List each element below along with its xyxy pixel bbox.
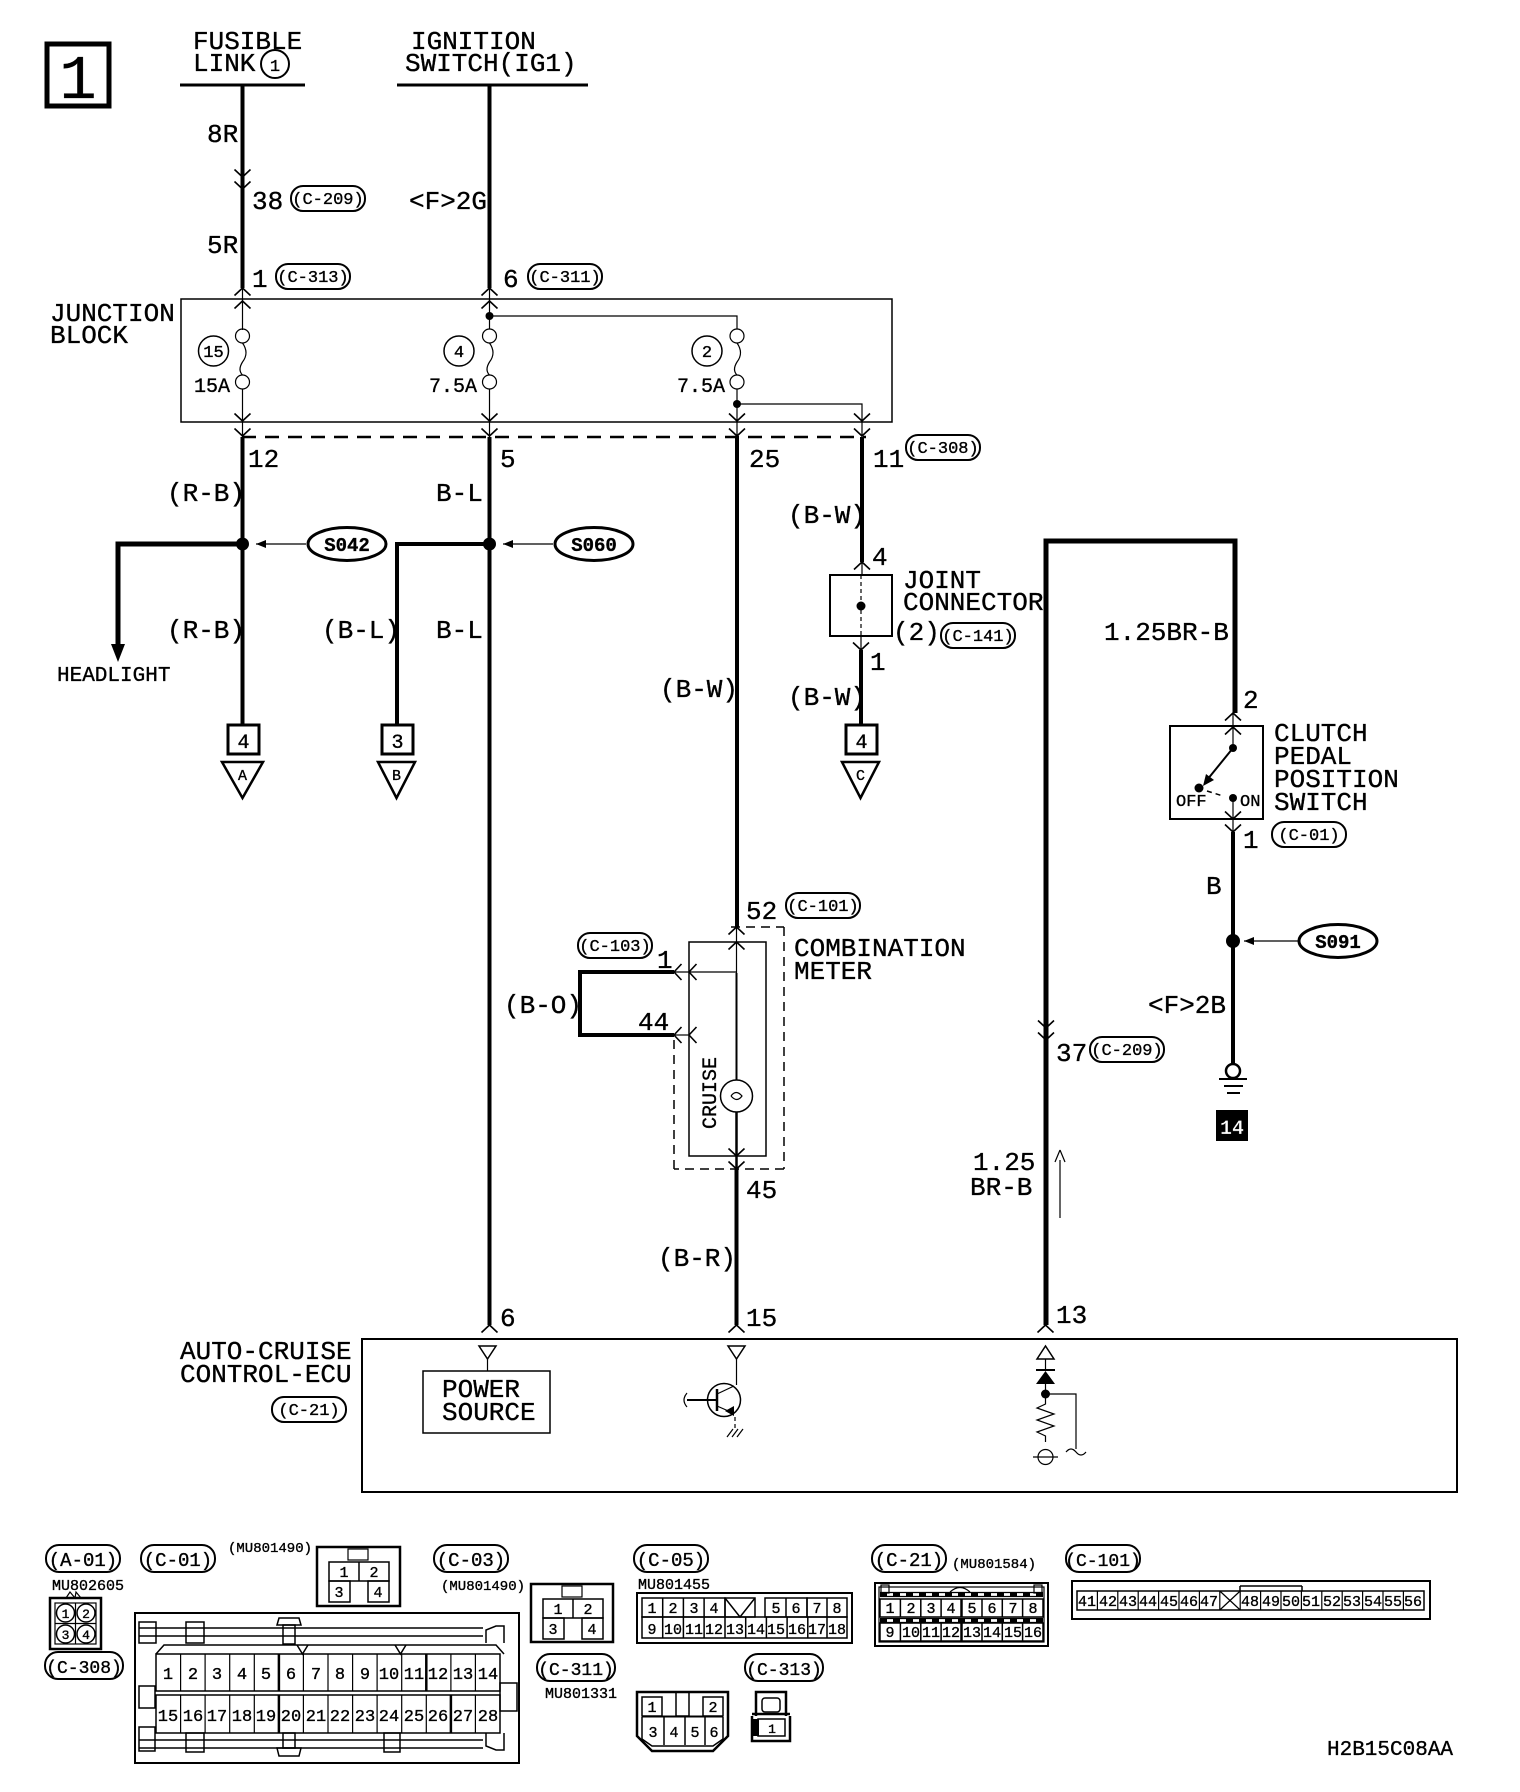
svg-text:11: 11 xyxy=(685,1622,703,1639)
svg-text:52: 52 xyxy=(746,897,777,927)
svg-text:16: 16 xyxy=(788,1622,806,1639)
svg-text:(B-W): (B-W) xyxy=(660,675,738,705)
svg-text:MU802605: MU802605 xyxy=(52,1578,124,1595)
svg-text:4: 4 xyxy=(709,1601,718,1618)
svg-text:41: 41 xyxy=(1078,1594,1096,1611)
svg-text:13: 13 xyxy=(1056,1301,1087,1331)
svg-text:4: 4 xyxy=(373,1585,382,1602)
svg-text:(C-103): (C-103) xyxy=(579,938,650,957)
svg-text:17: 17 xyxy=(207,1708,227,1727)
svg-text:19: 19 xyxy=(256,1708,276,1727)
svg-text:8: 8 xyxy=(1028,1601,1037,1618)
svg-text:6: 6 xyxy=(709,1725,718,1742)
svg-text:25: 25 xyxy=(404,1708,424,1727)
svg-text:4: 4 xyxy=(669,1725,678,1742)
svg-text:2: 2 xyxy=(906,1601,915,1618)
svg-text:3: 3 xyxy=(926,1601,935,1618)
svg-text:9: 9 xyxy=(360,1666,370,1685)
svg-text:5: 5 xyxy=(500,445,516,475)
svg-text:(C-311): (C-311) xyxy=(538,1661,614,1681)
svg-text:5: 5 xyxy=(967,1601,976,1618)
svg-text:4: 4 xyxy=(855,732,867,755)
svg-text:2: 2 xyxy=(668,1601,677,1618)
svg-text:56: 56 xyxy=(1404,1594,1422,1611)
svg-text:6: 6 xyxy=(503,265,519,295)
svg-text:7: 7 xyxy=(311,1666,321,1685)
svg-text:48: 48 xyxy=(1241,1594,1259,1611)
svg-text:11: 11 xyxy=(922,1625,940,1642)
svg-text:4: 4 xyxy=(946,1601,955,1618)
svg-text:(B-W): (B-W) xyxy=(788,501,866,531)
svg-text:11: 11 xyxy=(404,1666,424,1685)
svg-text:<F>2G: <F>2G xyxy=(409,187,487,217)
svg-text:C: C xyxy=(856,768,865,785)
svg-text:14: 14 xyxy=(478,1666,498,1685)
svg-text:14: 14 xyxy=(983,1625,1001,1642)
svg-text:1: 1 xyxy=(270,58,280,77)
svg-text:2: 2 xyxy=(188,1666,198,1685)
svg-text:(C-308): (C-308) xyxy=(46,1659,122,1679)
svg-text:37: 37 xyxy=(1056,1039,1087,1069)
svg-text:43: 43 xyxy=(1119,1594,1137,1611)
svg-text:13: 13 xyxy=(963,1625,981,1642)
svg-text:(MU801490): (MU801490) xyxy=(441,1579,525,1595)
svg-text:BR-B: BR-B xyxy=(970,1173,1032,1203)
svg-text:7: 7 xyxy=(812,1601,821,1618)
svg-text:15: 15 xyxy=(767,1622,785,1639)
svg-text:(C-311): (C-311) xyxy=(529,269,600,288)
svg-text:3: 3 xyxy=(212,1666,222,1685)
svg-text:CONTROL-ECU: CONTROL-ECU xyxy=(180,1360,352,1390)
svg-text:5: 5 xyxy=(771,1601,780,1618)
svg-text:B: B xyxy=(392,768,401,785)
svg-text:6: 6 xyxy=(987,1601,996,1618)
svg-text:HEADLIGHT: HEADLIGHT xyxy=(57,665,170,688)
svg-text:12: 12 xyxy=(942,1625,960,1642)
svg-text:(C-209): (C-209) xyxy=(1091,1042,1162,1061)
svg-text:4: 4 xyxy=(82,1628,90,1643)
svg-text:1: 1 xyxy=(647,1601,656,1618)
svg-text:1: 1 xyxy=(1243,826,1259,856)
svg-text:2: 2 xyxy=(1243,686,1259,716)
svg-text:13: 13 xyxy=(726,1622,744,1639)
svg-text:(C-141): (C-141) xyxy=(942,628,1013,647)
svg-text:3: 3 xyxy=(689,1601,698,1618)
svg-text:20: 20 xyxy=(281,1708,301,1727)
svg-text:50: 50 xyxy=(1282,1594,1300,1611)
svg-text:7.5A: 7.5A xyxy=(677,376,725,399)
svg-text:1: 1 xyxy=(885,1601,894,1618)
svg-text:53: 53 xyxy=(1343,1594,1361,1611)
svg-text:8: 8 xyxy=(335,1666,345,1685)
svg-text:17: 17 xyxy=(808,1622,826,1639)
svg-text:46: 46 xyxy=(1180,1594,1198,1611)
svg-text:14: 14 xyxy=(747,1622,765,1639)
svg-text:15A: 15A xyxy=(194,376,230,399)
svg-text:10: 10 xyxy=(664,1622,682,1639)
svg-text:(B-O): (B-O) xyxy=(504,991,582,1021)
svg-text:18: 18 xyxy=(828,1622,846,1639)
svg-text:16: 16 xyxy=(183,1708,203,1727)
svg-text:1: 1 xyxy=(870,648,886,678)
svg-text:5: 5 xyxy=(690,1725,699,1742)
svg-text:52: 52 xyxy=(1323,1594,1341,1611)
svg-text:22: 22 xyxy=(330,1708,350,1727)
svg-text:1.25BR-B: 1.25BR-B xyxy=(1104,618,1229,648)
svg-text:4: 4 xyxy=(237,1666,247,1685)
svg-text:45: 45 xyxy=(1160,1594,1178,1611)
svg-text:15: 15 xyxy=(158,1708,178,1727)
svg-text:SWITCH(IG1): SWITCH(IG1) xyxy=(405,49,577,79)
svg-text:3: 3 xyxy=(648,1725,657,1742)
svg-text:18: 18 xyxy=(232,1708,252,1727)
svg-text:8: 8 xyxy=(832,1601,841,1618)
svg-text:25: 25 xyxy=(749,445,780,475)
svg-text:2: 2 xyxy=(82,1607,90,1622)
svg-text:(2): (2) xyxy=(893,618,940,648)
svg-text:OFF: OFF xyxy=(1176,793,1207,812)
svg-text:1: 1 xyxy=(647,1700,656,1717)
svg-text:8R: 8R xyxy=(207,120,238,150)
svg-text:42: 42 xyxy=(1099,1594,1117,1611)
svg-text:2: 2 xyxy=(583,1602,592,1619)
svg-text:47: 47 xyxy=(1200,1594,1218,1611)
svg-text:55: 55 xyxy=(1384,1594,1402,1611)
svg-text:12: 12 xyxy=(705,1622,723,1639)
svg-text:15: 15 xyxy=(203,344,223,363)
svg-text:(C-101): (C-101) xyxy=(1065,1552,1141,1572)
svg-text:2: 2 xyxy=(708,1700,717,1717)
svg-text:B-L: B-L xyxy=(436,616,483,646)
svg-text:1: 1 xyxy=(163,1666,173,1685)
svg-text:4: 4 xyxy=(587,1622,596,1639)
svg-text:(C-101): (C-101) xyxy=(787,898,858,917)
svg-text:MU801331: MU801331 xyxy=(545,1686,617,1703)
svg-text:10: 10 xyxy=(902,1625,920,1642)
svg-text:16: 16 xyxy=(1024,1625,1042,1642)
svg-text:6: 6 xyxy=(286,1666,296,1685)
svg-text:7: 7 xyxy=(1008,1601,1017,1618)
svg-text:B: B xyxy=(1206,872,1222,902)
svg-text:1: 1 xyxy=(339,1565,348,1582)
svg-text:2: 2 xyxy=(369,1565,378,1582)
svg-text:15: 15 xyxy=(1004,1625,1022,1642)
svg-text:ON: ON xyxy=(1240,793,1260,812)
svg-text:CONNECTOR: CONNECTOR xyxy=(903,588,1043,618)
svg-text:15: 15 xyxy=(746,1304,777,1334)
svg-text:54: 54 xyxy=(1364,1594,1382,1611)
svg-text:(B-W): (B-W) xyxy=(788,683,866,713)
svg-text:SOURCE: SOURCE xyxy=(442,1398,536,1428)
svg-text:(C-209): (C-209) xyxy=(292,191,363,210)
svg-text:9: 9 xyxy=(885,1625,894,1642)
svg-text:4: 4 xyxy=(872,543,888,573)
svg-text:2: 2 xyxy=(702,344,712,363)
svg-text:(B-L): (B-L) xyxy=(322,616,400,646)
svg-text:(C-01): (C-01) xyxy=(1278,827,1339,846)
svg-text:LINK: LINK xyxy=(193,49,256,79)
svg-text:MU801455: MU801455 xyxy=(638,1577,710,1594)
svg-text:5: 5 xyxy=(261,1666,271,1685)
svg-text:28: 28 xyxy=(478,1708,498,1727)
svg-text:44: 44 xyxy=(638,1008,669,1038)
svg-text:(MU801584): (MU801584) xyxy=(952,1557,1036,1573)
svg-text:1: 1 xyxy=(768,1722,776,1737)
svg-text:24: 24 xyxy=(379,1708,399,1727)
svg-text:A: A xyxy=(238,768,247,785)
svg-text:(C-03): (C-03) xyxy=(437,1550,505,1572)
svg-text:METER: METER xyxy=(794,957,872,987)
svg-text:3: 3 xyxy=(548,1622,557,1639)
svg-text:6: 6 xyxy=(500,1304,516,1334)
svg-text:3: 3 xyxy=(334,1585,343,1602)
svg-text:(C-21): (C-21) xyxy=(875,1550,943,1572)
svg-text:51: 51 xyxy=(1302,1594,1320,1611)
svg-text:21: 21 xyxy=(306,1708,326,1727)
svg-text:4: 4 xyxy=(237,732,249,755)
svg-text:9: 9 xyxy=(647,1622,656,1639)
svg-text:(MU801490): (MU801490) xyxy=(228,1541,312,1557)
svg-text:45: 45 xyxy=(746,1176,777,1206)
svg-text:3: 3 xyxy=(62,1628,70,1643)
svg-text:CRUISE: CRUISE xyxy=(700,1057,723,1129)
svg-text:12: 12 xyxy=(248,445,279,475)
svg-text:(C-05): (C-05) xyxy=(637,1550,705,1572)
svg-text:13: 13 xyxy=(453,1666,473,1685)
svg-text:14: 14 xyxy=(1220,1118,1244,1141)
svg-text:(C-01): (C-01) xyxy=(144,1550,212,1572)
svg-text:12: 12 xyxy=(428,1666,448,1685)
svg-text:10: 10 xyxy=(379,1666,399,1685)
svg-text:(C-21): (C-21) xyxy=(278,1402,339,1421)
svg-text:(A-01): (A-01) xyxy=(49,1550,117,1572)
svg-text:(C-313): (C-313) xyxy=(277,269,348,288)
svg-text:5R: 5R xyxy=(207,231,238,261)
svg-text:1: 1 xyxy=(657,946,673,976)
svg-text:B-L: B-L xyxy=(436,479,483,509)
svg-text:1: 1 xyxy=(62,1607,70,1622)
svg-text:H2B15C08AA: H2B15C08AA xyxy=(1327,1739,1453,1762)
svg-text:6: 6 xyxy=(791,1601,800,1618)
svg-text:27: 27 xyxy=(453,1708,473,1727)
svg-text:26: 26 xyxy=(428,1708,448,1727)
svg-text:11: 11 xyxy=(873,445,904,475)
svg-text:(C-313): (C-313) xyxy=(746,1661,822,1681)
svg-text:38: 38 xyxy=(252,187,283,217)
svg-text:S091: S091 xyxy=(1315,932,1361,954)
svg-text:BLOCK: BLOCK xyxy=(50,321,128,351)
svg-text:S060: S060 xyxy=(571,535,617,557)
svg-text:1: 1 xyxy=(59,46,96,117)
svg-text:1: 1 xyxy=(252,265,268,295)
svg-text:7.5A: 7.5A xyxy=(429,376,477,399)
svg-text:S042: S042 xyxy=(324,535,370,557)
svg-text:3: 3 xyxy=(391,732,403,755)
svg-text:(C-308): (C-308) xyxy=(907,440,978,459)
svg-text:<F>2B: <F>2B xyxy=(1148,991,1226,1021)
svg-text:23: 23 xyxy=(355,1708,375,1727)
svg-text:49: 49 xyxy=(1262,1594,1280,1611)
svg-text:(R-B): (R-B) xyxy=(167,616,245,646)
svg-text:4: 4 xyxy=(454,344,464,363)
svg-text:SWITCH: SWITCH xyxy=(1274,788,1368,818)
svg-text:1: 1 xyxy=(553,1602,562,1619)
svg-text:44: 44 xyxy=(1139,1594,1157,1611)
svg-text:(R-B): (R-B) xyxy=(167,479,245,509)
svg-text:(B-R): (B-R) xyxy=(658,1244,736,1274)
